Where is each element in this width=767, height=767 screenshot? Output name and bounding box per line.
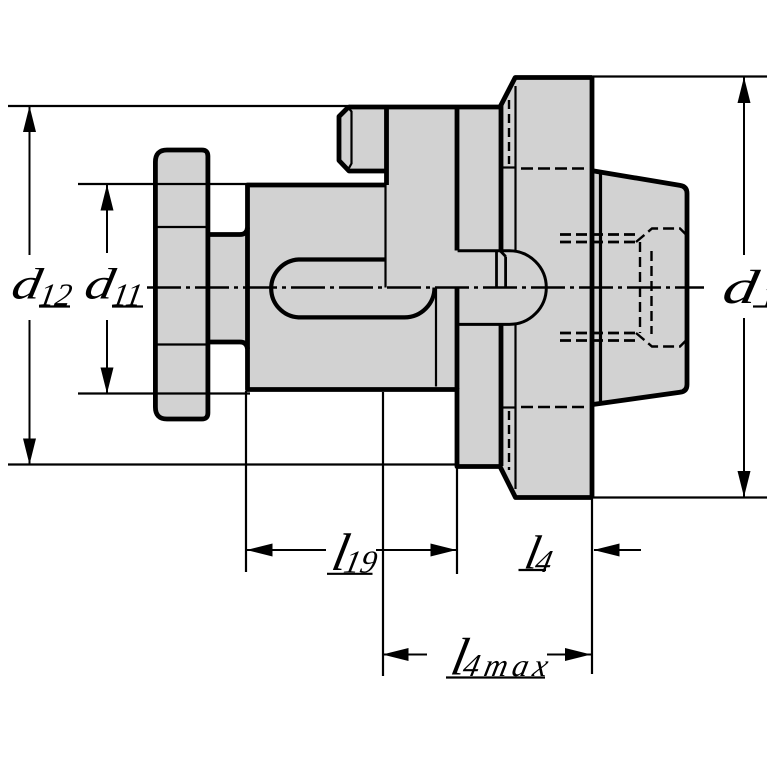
arrow l4max left xyxy=(383,648,409,661)
bump inner vertical A xyxy=(495,252,498,288)
label d12 xyxy=(8,260,78,312)
collar left thick vertical upper xyxy=(499,105,504,251)
collar left thick vertical lower xyxy=(499,324,504,466)
label d11 xyxy=(81,260,149,312)
bore chamfer dash top xyxy=(636,229,686,243)
d1 dimension line xyxy=(743,77,745,255)
d12 top extension line xyxy=(8,105,350,107)
centerline xyxy=(147,286,704,289)
arrow l19 left xyxy=(247,544,273,557)
underline d12 xyxy=(39,305,70,307)
knob inner line top xyxy=(155,226,208,228)
tall column right thick vertical upper xyxy=(455,107,460,251)
body outline left/top/bottom xyxy=(248,185,458,390)
knob outline xyxy=(155,150,208,419)
d1 top extension line xyxy=(592,75,767,77)
collar dashed vertical top xyxy=(508,100,510,164)
bump inner vertical B xyxy=(504,257,507,288)
d12 bottom extension line xyxy=(8,463,457,465)
arrow d11 down xyxy=(101,368,114,394)
tall column right thick vertical lower xyxy=(455,287,460,389)
underline l4max xyxy=(446,676,545,678)
boss outline xyxy=(339,107,387,185)
slot right vertical xyxy=(435,288,437,387)
neck bottom edge with fillet xyxy=(208,342,248,349)
flange outline xyxy=(591,171,687,405)
l4max dimension line xyxy=(383,654,428,656)
main body gray silhouette xyxy=(248,78,593,498)
label l19 xyxy=(327,523,385,582)
underline l4 xyxy=(519,569,547,571)
collar right edge xyxy=(590,78,595,498)
collar dashed horizontal top xyxy=(521,167,588,169)
bump top line xyxy=(458,249,510,252)
extension vertical l19 right xyxy=(456,466,458,574)
neck gray silhouette xyxy=(208,233,248,343)
tall column left thin edge xyxy=(384,185,386,288)
bore dashed vertical V1 xyxy=(639,242,641,333)
arrow l19 right xyxy=(431,544,457,557)
collar short horizontal top xyxy=(501,166,516,168)
d11 top extension line xyxy=(78,183,250,185)
arrow d12 down xyxy=(23,439,36,465)
label l4max xyxy=(446,627,556,686)
extension vertical l4 right xyxy=(591,498,593,675)
arrow l4 left xyxy=(594,544,620,557)
body step down right xyxy=(457,388,592,498)
top step and collar top xyxy=(349,78,593,108)
underline l19 xyxy=(327,573,373,575)
arrow d1 up xyxy=(738,77,751,103)
label d1 xyxy=(719,260,767,314)
bore chamfer dash bottom xyxy=(636,333,686,347)
collar thin vertical top xyxy=(514,86,516,251)
arrow d11 up xyxy=(101,185,114,211)
knob inner line bottom xyxy=(155,343,208,345)
extension vertical l19 left xyxy=(245,391,247,572)
collar thin vertical bottom xyxy=(514,325,516,489)
neck top edge with fillet xyxy=(208,228,248,235)
bump semicircle xyxy=(510,251,547,325)
bump inner diagonal xyxy=(500,251,505,257)
bump bottom line xyxy=(458,323,510,326)
boss chamfer facet line xyxy=(349,109,352,169)
arrow d1 down xyxy=(738,471,751,497)
d12 dimension line xyxy=(29,106,31,255)
label l4 xyxy=(521,527,560,579)
d1 bottom extension line xyxy=(592,496,767,498)
underline d1 xyxy=(753,305,767,307)
thread dashed bottom pair xyxy=(560,332,636,335)
bore dashed vertical V2 xyxy=(650,251,652,334)
collar dashed vertical bottom xyxy=(508,411,510,470)
underline d11 xyxy=(112,305,143,307)
arrow l4max right xyxy=(565,648,591,661)
collar dashed horizontal bottom xyxy=(521,406,588,408)
knob gray silhouette xyxy=(155,150,208,419)
flange left vertical 2 xyxy=(599,172,602,404)
l4 dimension tail xyxy=(594,549,641,551)
arrow d12 up xyxy=(23,106,36,132)
collar short horizontal bottom xyxy=(501,406,516,408)
d11 bottom extension line xyxy=(78,392,250,394)
thread dashed top pair xyxy=(560,233,636,236)
slot outline xyxy=(271,260,434,318)
l19 dimension line xyxy=(247,549,327,551)
d11 dimension line xyxy=(106,185,108,254)
extension vertical l4max left xyxy=(382,392,384,676)
flange gray silhouette xyxy=(591,171,687,405)
